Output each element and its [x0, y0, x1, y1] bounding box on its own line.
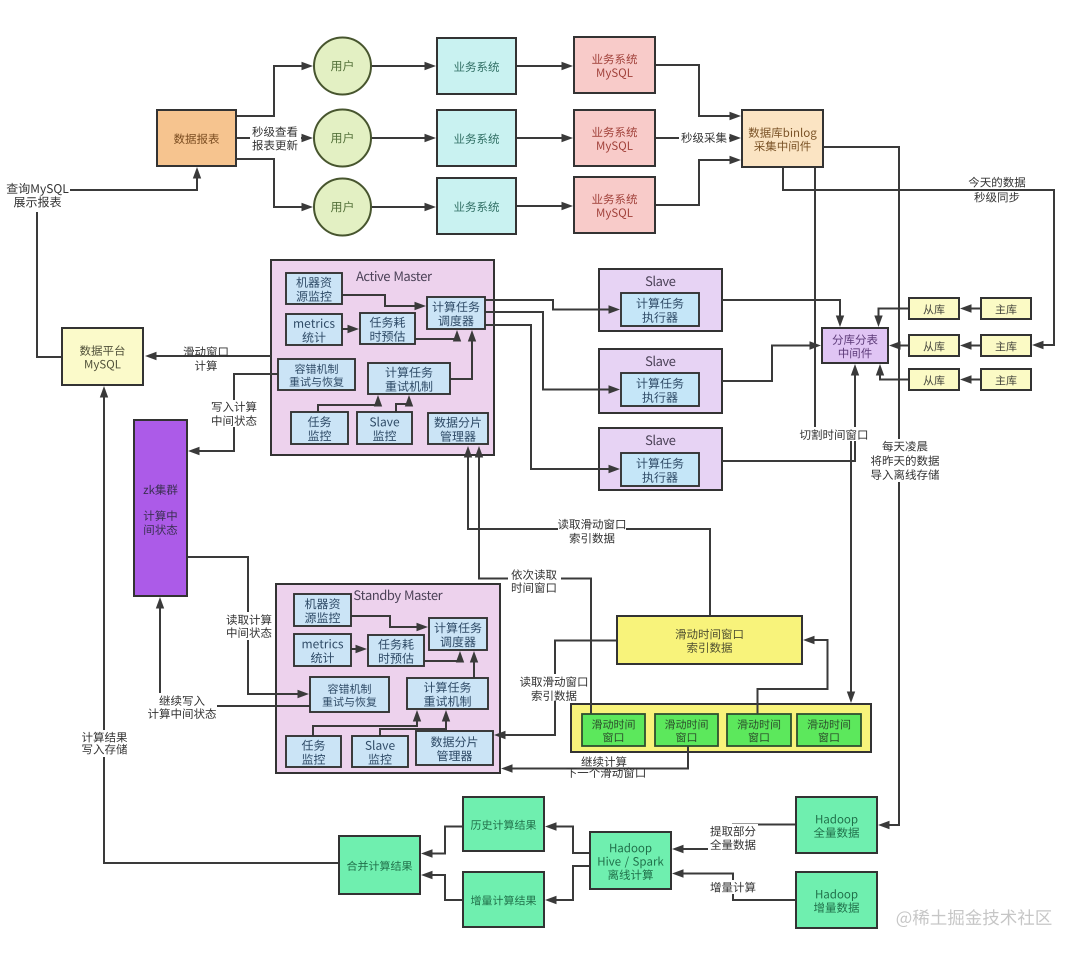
wire 滑动窗口2 to StandbyMaster [501, 746, 688, 773]
label 读取滑动窗口 索引数据 upper [558, 517, 626, 544]
label Slave2 title [646, 356, 676, 367]
box 业务系统MySQL3 [574, 177, 655, 233]
box 数据分片管理器S [416, 731, 493, 765]
box 任务监控A [291, 412, 348, 444]
label 秒级采集 [679, 131, 729, 144]
box 增量计算结果 [463, 872, 544, 927]
label 增量计算 [708, 880, 758, 894]
circle 用户2 [314, 110, 371, 167]
box 滑动时间窗口4 [797, 714, 861, 746]
wire 滑动窗口3 to 索引数据 [758, 636, 828, 714]
box 业务系统2 [437, 110, 516, 166]
box 从库1 [909, 298, 959, 319]
box 数据库binlog采集中间件 [742, 110, 823, 167]
box Hadoop Hive Spark 离线计算 [590, 832, 671, 889]
box Slave3 [599, 428, 722, 490]
wire 用户3 to 业务系统3 [371, 203, 436, 211]
box 业务系统MySQL2 [574, 110, 655, 166]
box 计算任务调度器A [427, 297, 485, 329]
wire 任务监控A to 重试机制A [318, 395, 382, 412]
wire Slave1 to 分库分表 [722, 300, 844, 327]
box 滑动时间窗口2 [655, 714, 718, 746]
box 从库2 [909, 335, 959, 356]
wire 索引数据 to Standby数据分片 [494, 641, 617, 740]
wire zk集群 to Standby容错 [187, 557, 309, 698]
wire 机器资源监控S to 调度器S [351, 616, 428, 631]
wire 合并计算结果 to 数据平台MySQL [100, 386, 339, 863]
wire 索引数据 to Active数据分片 [464, 446, 710, 616]
wire 任务耗时预估A to 调度器A [415, 330, 461, 342]
wire Hive to 增量计算结果 [545, 866, 590, 904]
wire 数据报表 to 用户2 [236, 134, 313, 142]
box 数据分片管理器A [428, 413, 488, 444]
circle 用户1 [314, 38, 371, 95]
wire ActiveMaster to 数据平台MySQL [145, 352, 271, 360]
box 历史计算结果 [463, 797, 544, 851]
box 滑动时间窗口索引数据 [617, 616, 802, 664]
label Active Master [356, 271, 432, 281]
wire Standby容错 to zk集群 [156, 597, 310, 706]
box zk集群 计算中间状态 [134, 420, 187, 596]
box 任务耗时预估A [360, 313, 415, 344]
box 计算任务执行器3 [621, 453, 699, 486]
wire 历史计算结果 to 合并 [421, 827, 463, 858]
wire Slave监控S to 重试机制S [380, 710, 450, 736]
box 计算任务重试机制A [368, 363, 450, 394]
box metrics统计A [286, 314, 342, 345]
wire Hadoop全量 to Hive [672, 825, 796, 854]
wire 数据报表 to 用户3 [236, 159, 313, 211]
label 滑动窗口 计算 [183, 346, 227, 371]
label Slave1 title [646, 276, 676, 287]
wire MySQL2 to binlog采集 [655, 134, 741, 142]
label Standby Master [354, 590, 443, 603]
wire 重试机制S to 调度器S [470, 651, 478, 678]
label 今天的数据 秒级同步 [969, 177, 1026, 203]
wire 主库2 to 从库2 [960, 341, 981, 349]
wire Slave2 to 分库分表 [722, 341, 821, 381]
label 切割时间窗口 [800, 427, 868, 441]
box 主库2 [981, 335, 1031, 356]
wire 容错机制 to zk集群 [188, 374, 278, 455]
box Slave1 [599, 269, 722, 331]
box 机器资源监控S [294, 594, 351, 626]
box 机器资源监控A [286, 273, 342, 304]
box Slave监控S [352, 736, 408, 767]
box metrics统计S [294, 634, 351, 666]
wire 查询展示 to 数据报表 [70, 167, 201, 190]
wire 主库3 to 从库3 [960, 375, 981, 383]
box 任务耗时预估S [368, 635, 424, 666]
box 数据报表 [157, 110, 236, 166]
wire 主库1 to 从库1 [960, 304, 981, 312]
wire 业务系统3 to MySQL3 [516, 202, 573, 210]
label 每天凌晨 将昨天的数据 导入离线存储 [869, 439, 941, 482]
box 滑动窗口容器 [571, 704, 871, 752]
box 合并计算结果 [339, 836, 420, 894]
label Slave3 title [646, 435, 676, 446]
wire 用户1 to 业务系统1 [371, 62, 436, 70]
wire 机器资源监控A to 调度器A [342, 295, 426, 310]
wire MySQL1 to binlog采集 [655, 65, 741, 120]
box 主库1 [981, 298, 1031, 319]
wire Slave3 to 分库分表 [722, 364, 859, 461]
wire 调度器 to Slave3执行器 [485, 325, 620, 473]
wire 调度器 to Slave1执行器 [485, 300, 620, 314]
circle 用户3 [314, 179, 371, 236]
wire 业务系统2 to MySQL2 [516, 134, 573, 142]
wire binlog采集 to 主库2 同步 [783, 167, 1054, 349]
box Hadoop增量数据 [796, 872, 877, 928]
label watermark 稀土掘金技术社区 [897, 909, 1052, 927]
box 滑动时间窗口1 [582, 714, 645, 746]
box 从库3 [909, 369, 959, 390]
wire binlog采集 切割时间窗口 [815, 167, 855, 703]
wire Hive to 历史计算结果 [545, 822, 590, 853]
box 容错机制重试与恢复A [278, 359, 355, 390]
wire 从库2 to 分库分表 [889, 341, 909, 349]
label 依次读取 时间窗口 [508, 564, 561, 593]
wire 业务系统1 to MySQL1 [516, 62, 573, 70]
label 继续计算 下一个滑动窗口 [566, 756, 644, 778]
wire 重试机制A to 调度器A [450, 330, 476, 379]
label 读取滑动窗口 索引数据 lower [520, 674, 588, 701]
box 分库分表中间件 [822, 328, 888, 363]
wire 数据平台MySQL to 查询展示 [37, 212, 62, 357]
box 计算任务调度器S [429, 618, 487, 650]
label 查询MySQL 展示报表 [7, 183, 69, 208]
label 计算结果 写入存储 [80, 730, 129, 757]
box Hadoop全量数据 [796, 797, 877, 853]
box 业务系统MySQL1 [574, 37, 655, 93]
label 继续写入 计算中间状态 [147, 693, 217, 720]
label 写入计算 中间状态 [210, 400, 258, 427]
label 读取计算 中间状态 [225, 612, 274, 640]
box 数据平台MySQL [62, 328, 143, 385]
wire MySQL3 to binlog采集 [655, 156, 741, 205]
box 计算任务执行器1 [621, 293, 699, 326]
wire 增量计算结果 to 合并 [421, 871, 463, 900]
box 容错机制重试与恢复S [310, 677, 389, 712]
wire 滑动窗口1 to Active数据分片 [475, 446, 591, 714]
box Active Master [271, 260, 494, 455]
box Standby Master [276, 584, 500, 773]
box 计算任务执行器2 [621, 373, 699, 406]
wire 从库3 to 分库分表 [876, 364, 909, 380]
box 主库3 [981, 369, 1031, 390]
wire binlog采集 to Hadoop全量数据 [823, 147, 899, 829]
box Slave2 [599, 349, 722, 413]
wire 用户2 to 业务系统2 [371, 134, 436, 142]
wire 数据报表 to 用户1 [236, 62, 313, 116]
wire 从库1 to 分库分表 [874, 309, 909, 328]
box 业务系统3 [437, 178, 516, 234]
wire 任务监控S to 重试机制S [313, 710, 421, 736]
label 秒级查看 报表更新 [250, 124, 301, 152]
box 业务系统1 [437, 38, 516, 94]
wire Hadoop增量 to Hive [672, 869, 796, 900]
wire 调度器 to Slave2执行器 [485, 312, 620, 394]
box 任务监控S [286, 736, 341, 767]
wire 任务耗时预估S to 调度器S [424, 651, 464, 663]
box Slave监控A [357, 412, 412, 444]
wire metricsS to 任务耗时预估S [351, 645, 367, 653]
wire metricsA to 任务耗时预估A [342, 325, 359, 333]
box 滑动时间窗口3 [727, 714, 791, 746]
box 计算任务重试机制S [407, 678, 488, 709]
label 提取部分 全量数据 [708, 824, 758, 851]
wire Slave监控A to 重试机制A [396, 395, 413, 412]
